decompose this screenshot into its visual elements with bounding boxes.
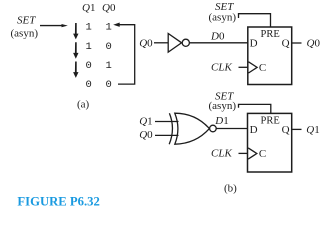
svg-text:Q1: Q1 (82, 2, 95, 14)
svg-text:(asyn): (asyn) (209, 100, 237, 112)
svg-text:Q1: Q1 (139, 115, 152, 127)
svg-text:0: 0 (86, 79, 92, 91)
svg-text:Q0: Q0 (139, 37, 153, 49)
svg-text:CLK: CLK (211, 62, 232, 74)
svg-text:1: 1 (106, 22, 112, 34)
inverter U3 output bubble (182, 39, 189, 46)
svg-text:(b): (b) (224, 182, 237, 194)
svg-text:Q1: Q1 (306, 124, 319, 136)
wire CLK to C of U1 (239, 66, 248, 68)
xnor U4 input double arc (169, 113, 172, 144)
svg-text:PRE: PRE (261, 29, 280, 40)
wire Q of U2 to Q1 output (292, 128, 302, 130)
clock chevron U1 (249, 62, 258, 73)
inverter U3 triangle (168, 34, 181, 53)
svg-text:CLK: CLK (211, 148, 232, 160)
svg-text:0: 0 (86, 60, 92, 72)
svg-text:1: 1 (86, 22, 92, 34)
wire SET arrow into state 11 (40, 24, 68, 27)
svg-text:D: D (250, 124, 258, 136)
svg-text:Q: Q (282, 124, 290, 136)
xnor U4 body (175, 113, 210, 144)
svg-text:1: 1 (86, 41, 92, 53)
svg-text:Q0: Q0 (102, 2, 116, 14)
wire Q of U1 to Q0 output (292, 42, 302, 44)
flip-flop U2 box (248, 113, 292, 172)
svg-text:C: C (259, 62, 266, 74)
svg-text:D1: D1 (214, 115, 228, 127)
svg-text:(asyn): (asyn) (11, 27, 39, 39)
wire transition arrow row3 to row4 (73, 62, 78, 78)
wire Q0 into xnor (155, 134, 179, 136)
wire CLK to C of U2 (239, 152, 248, 154)
wire Q1 into xnor (155, 121, 179, 123)
wire D0 inverter output to D of U1 (189, 42, 247, 44)
wire SET to PRE of U2 (239, 104, 271, 113)
svg-text:SET: SET (17, 15, 36, 27)
wire Q0 to inverter (154, 42, 168, 44)
clock chevron U2 (248, 148, 257, 159)
svg-text:D: D (250, 38, 258, 50)
svg-text:0: 0 (106, 79, 112, 91)
svg-text:D0: D0 (210, 30, 225, 42)
svg-text:Q0: Q0 (139, 129, 153, 141)
svg-text:1: 1 (106, 60, 112, 72)
wire D1 xnor output to D of U2 (216, 128, 247, 130)
svg-text:(a): (a) (77, 99, 90, 111)
xnor U4 output bubble (210, 125, 217, 132)
wire transition arrow row1 to row2 (73, 23, 78, 39)
svg-text:0: 0 (106, 41, 112, 53)
wire feedback loop 00 back to 11 (118, 25, 135, 84)
svg-text:Q: Q (282, 38, 290, 50)
svg-text:(asyn): (asyn) (209, 12, 237, 24)
flip-flop U1 box (248, 27, 292, 85)
svg-text:C: C (259, 148, 266, 160)
wire transition arrow row2 to row3 (73, 42, 78, 58)
svg-text:FIGURE P6.32: FIGURE P6.32 (17, 195, 99, 209)
wire SET to PRE of U1 (239, 14, 271, 27)
svg-text:PRE: PRE (261, 116, 280, 127)
svg-text:Q0: Q0 (307, 38, 321, 50)
